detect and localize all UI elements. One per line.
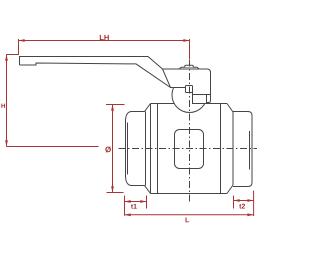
label dia (105, 146, 111, 152)
t2 dimension line (234, 200, 254, 202)
handle head plate (163, 69, 211, 104)
right cap outer face (232, 112, 234, 185)
t2 extension left (233, 196, 235, 209)
H top tick (7, 54, 19, 56)
H arrow up (5, 55, 8, 61)
LH arrow right (183, 39, 189, 42)
right extension nipple (233, 112, 252, 187)
t1 dimension line (125, 201, 147, 203)
right cap bottom chamfer (227, 185, 233, 194)
L extension left (124, 196, 126, 216)
diameter bottom tick (107, 192, 124, 194)
left cap port thread line (127, 123, 129, 175)
stem gland boss circle (172, 78, 207, 113)
L arrow left (125, 213, 131, 216)
diameter top tick (106, 104, 125, 106)
label L (186, 217, 190, 222)
stem square (186, 86, 193, 93)
stem vertical centerline (189, 60, 191, 203)
t1 arrow left (125, 200, 131, 203)
head tab bend (206, 95, 208, 103)
left cap body joint (157, 104, 159, 194)
label t1 (131, 204, 137, 209)
L arrow right (247, 213, 253, 216)
diameter arrow down (111, 186, 114, 192)
ball window rounded square (175, 130, 204, 169)
bore horizontal centerline (119, 148, 258, 150)
H dimension line (6, 55, 8, 147)
L dimension line (125, 214, 254, 216)
left cap hex edge (145, 112, 147, 186)
bore diameter leader (7, 146, 99, 148)
label H (1, 104, 5, 108)
label LH (100, 35, 109, 40)
left cap corner column (150, 104, 152, 194)
stem nut top (185, 65, 193, 67)
H arrow down (5, 140, 8, 146)
right port thread line (249, 131, 251, 170)
t2 arrow right (247, 199, 253, 202)
LH extension line right (189, 39, 191, 59)
LH extension line left (18, 39, 20, 55)
t2 and L extension right (253, 191, 255, 217)
right cap top chamfer (227, 104, 233, 113)
diameter dimension line (112, 105, 114, 193)
t1 extension right (146, 196, 148, 209)
t1 arrow right (140, 200, 146, 203)
valve body top edge (151, 103, 228, 105)
valve body bottom edge (151, 193, 228, 195)
head bend line (193, 94, 211, 96)
right cap hex edge (220, 104, 222, 194)
t2 arrow left (234, 199, 240, 202)
diameter arrow up (111, 105, 114, 111)
LH dimension line (19, 40, 190, 42)
LH arrow left (19, 39, 25, 42)
handle lever bar (20, 57, 171, 88)
stem nut flange (179, 67, 199, 69)
left hex end cap outline (126, 104, 151, 194)
label t2 (239, 204, 245, 209)
